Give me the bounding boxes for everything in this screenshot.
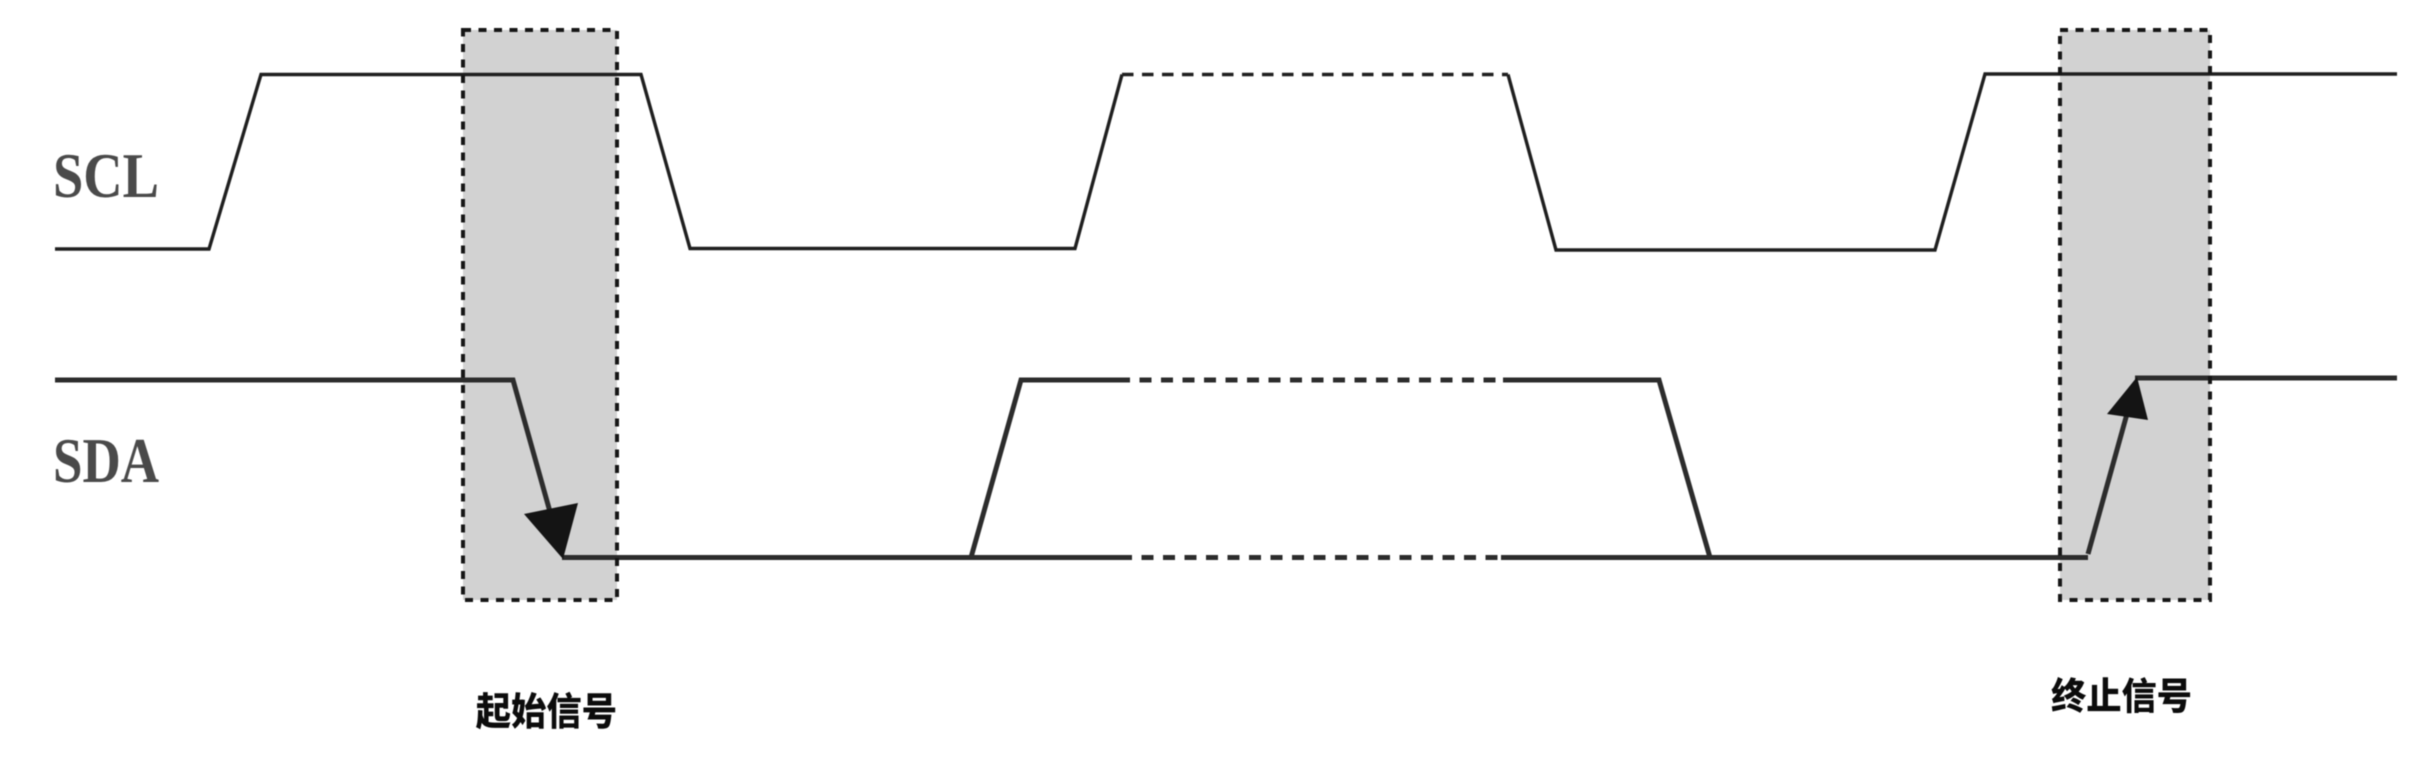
svg-text:SDA: SDA	[53, 425, 159, 496]
svg-text:SCL: SCL	[53, 140, 159, 211]
